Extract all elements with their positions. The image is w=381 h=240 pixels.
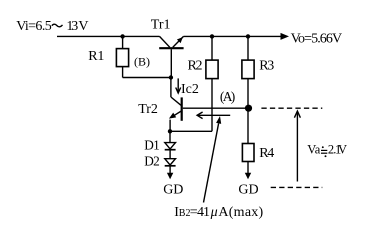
- svg-text:Tr1: Tr1: [151, 18, 171, 33]
- svg-text:R2: R2: [188, 59, 203, 74]
- svg-text:GD: GD: [238, 183, 258, 198]
- svg-text:3: 3: [71, 19, 78, 34]
- svg-text:Ic2: Ic2: [181, 82, 199, 97]
- svg-text:D1: D1: [144, 138, 160, 153]
- svg-text:1: 1: [203, 205, 210, 220]
- svg-text:R1: R1: [88, 49, 104, 64]
- svg-text:Vo=5.66V: Vo=5.66V: [291, 32, 343, 47]
- svg-text:R4: R4: [259, 146, 274, 161]
- svg-text:μ: μ: [210, 205, 218, 220]
- svg-text:(B): (B): [134, 54, 150, 68]
- svg-text:Tr2: Tr2: [138, 102, 158, 117]
- svg-text:D2: D2: [144, 154, 160, 169]
- svg-text:GD: GD: [163, 183, 183, 198]
- svg-text:A(max): A(max): [218, 205, 263, 220]
- svg-text:Va: Va: [307, 143, 321, 157]
- svg-text:V: V: [78, 19, 88, 34]
- svg-text:Vi=6.5: Vi=6.5: [16, 19, 52, 34]
- svg-text:(A): (A): [220, 89, 235, 104]
- svg-text:V: V: [338, 143, 347, 157]
- svg-text:R3: R3: [259, 59, 274, 74]
